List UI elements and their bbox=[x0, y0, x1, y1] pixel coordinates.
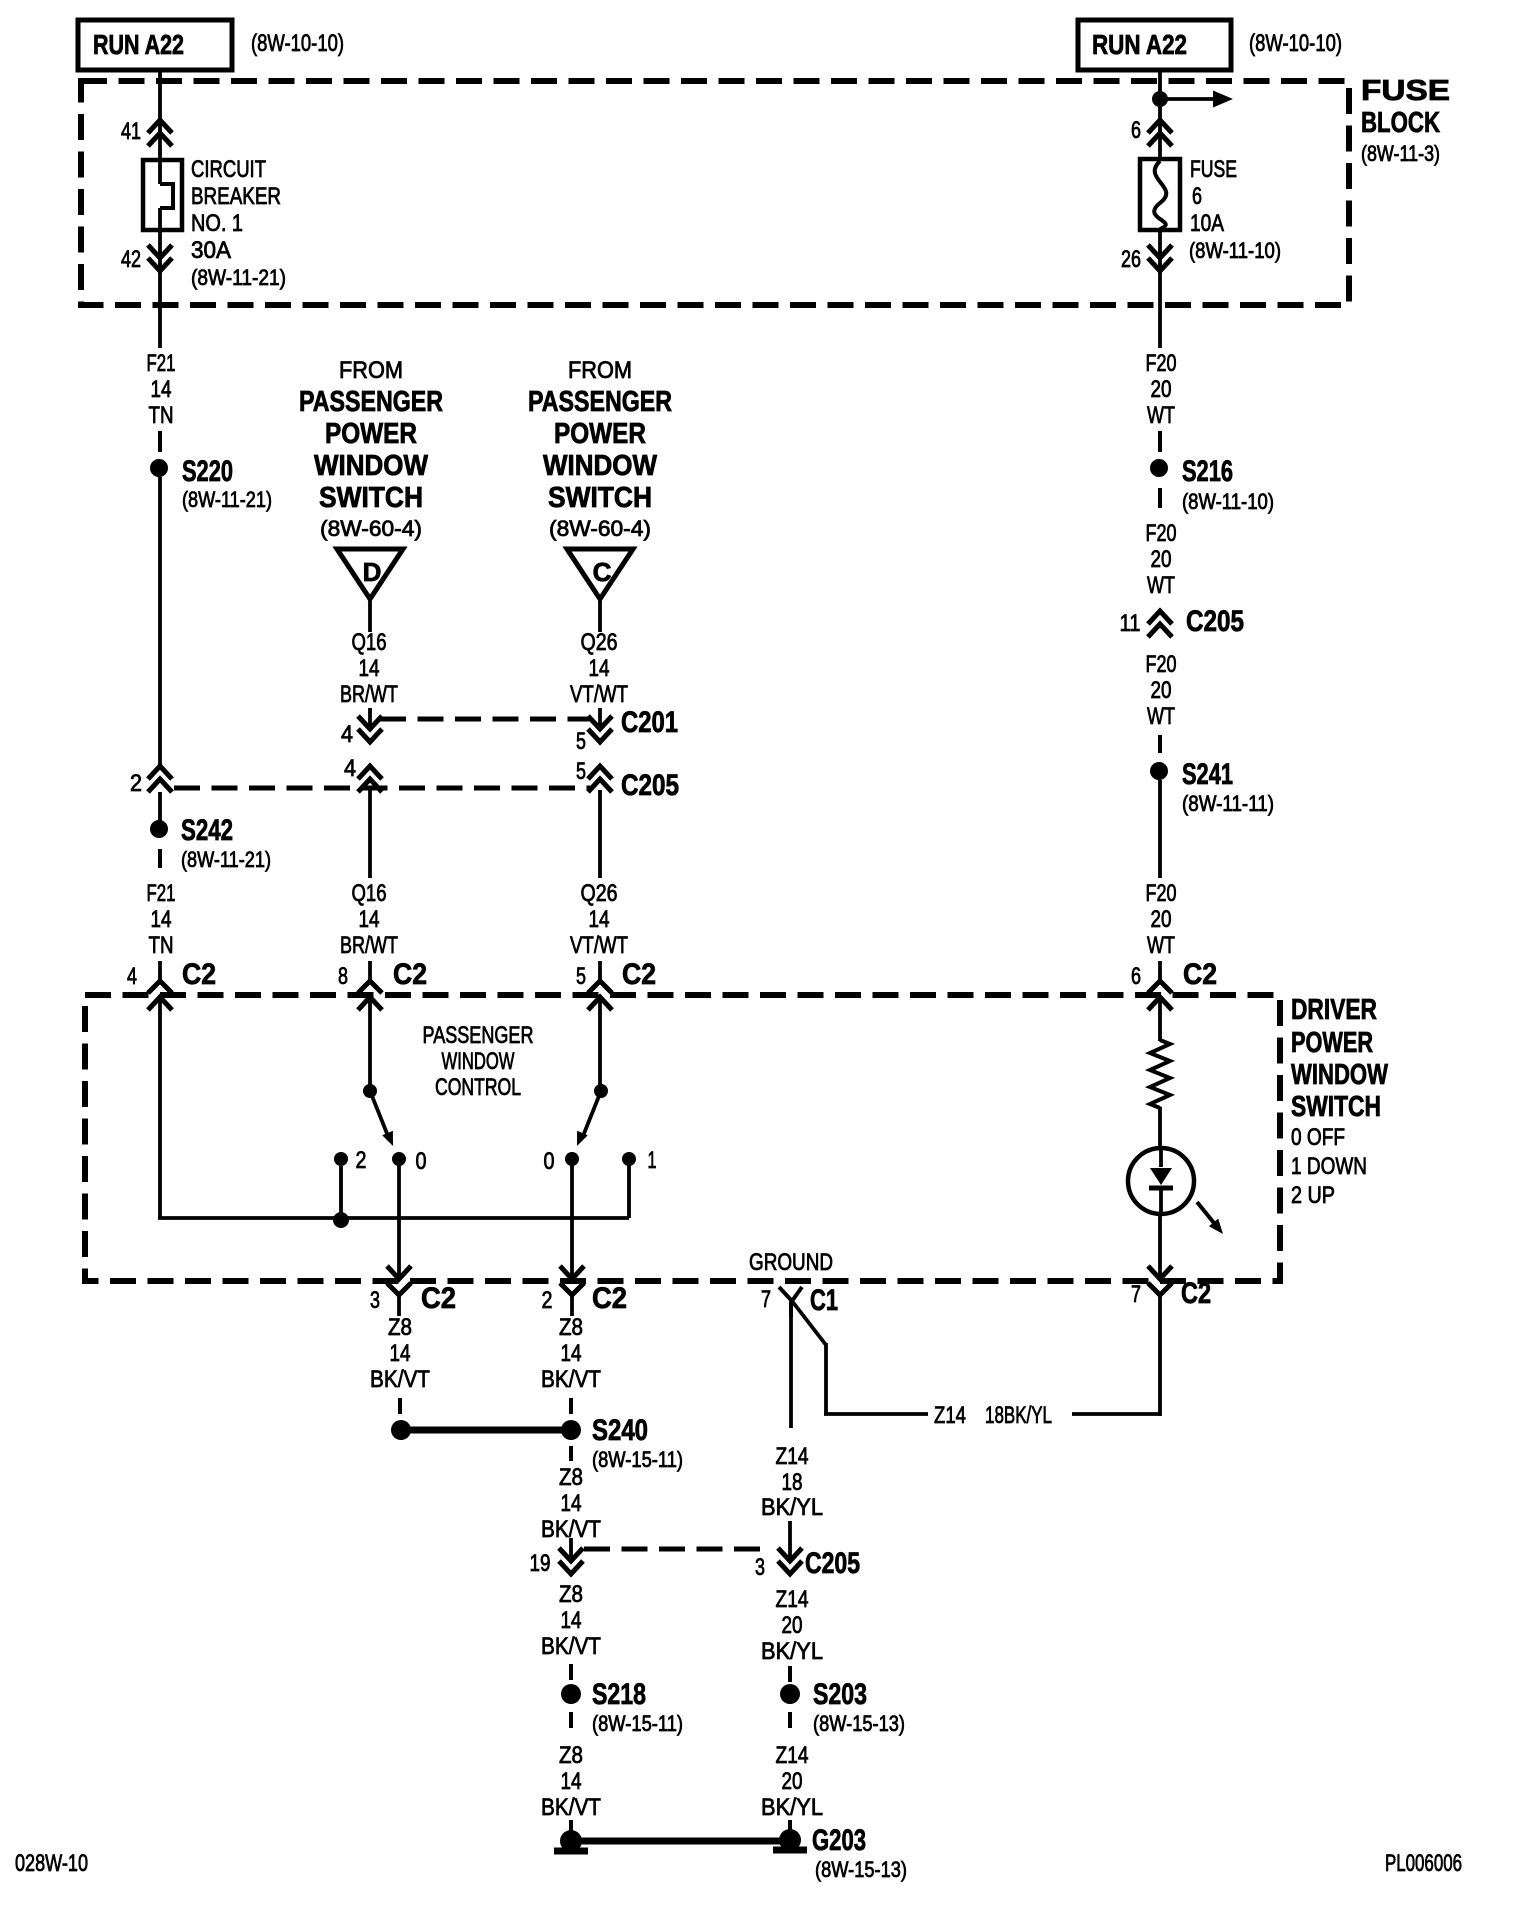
svg-text:WT: WT bbox=[1147, 932, 1175, 959]
wire dash above S240 left leg bbox=[398, 1398, 402, 1414]
svg-text:2: 2 bbox=[130, 770, 142, 797]
svg-text:C2: C2 bbox=[1181, 1277, 1211, 1310]
svg-text:S203: S203 bbox=[813, 1678, 867, 1711]
svg-text:C1: C1 bbox=[810, 1284, 838, 1317]
pin 5 C205 connector bbox=[576, 758, 612, 792]
arrow into box pin 5 bbox=[588, 997, 612, 1010]
label (8W-10-10) left bbox=[251, 30, 344, 57]
svg-text:TN: TN bbox=[149, 932, 174, 959]
svg-text:Z8: Z8 bbox=[559, 1581, 583, 1608]
label F20 20 WT (4) bbox=[1146, 880, 1177, 959]
arrow out of box pin 3 bbox=[387, 1266, 411, 1279]
svg-text:SWITCH: SWITCH bbox=[1291, 1091, 1381, 1123]
svg-text:SWITCH: SWITCH bbox=[319, 482, 423, 514]
svg-text:VT/WT: VT/WT bbox=[570, 932, 628, 959]
wire into pin 3 C205 bbox=[788, 1521, 792, 1560]
label F20 20 WT (3) bbox=[1146, 651, 1177, 730]
wire C1 branch to driver switch bbox=[792, 1301, 928, 1414]
svg-text:(8W-11-21): (8W-11-21) bbox=[181, 847, 271, 872]
svg-text:WT: WT bbox=[1147, 402, 1175, 429]
svg-text:WINDOW: WINDOW bbox=[314, 450, 429, 482]
wire S241 to F20 label bbox=[1158, 780, 1162, 878]
svg-text:14: 14 bbox=[561, 1490, 582, 1517]
svg-text:(8W-15-13): (8W-15-13) bbox=[815, 1857, 907, 1882]
pin 42 connector bbox=[121, 245, 172, 273]
wire S240 tie bar bbox=[406, 1427, 566, 1434]
label F20 20 WT (2) bbox=[1146, 520, 1177, 599]
svg-text:7: 7 bbox=[761, 1286, 771, 1313]
svg-text:20: 20 bbox=[782, 1768, 803, 1795]
svg-text:F20: F20 bbox=[1146, 520, 1177, 547]
svg-text:POWER: POWER bbox=[1291, 1027, 1373, 1059]
label Z14 20 BK/YL (to ground) bbox=[761, 1742, 823, 1821]
svg-text:CIRCUIT: CIRCUIT bbox=[191, 156, 266, 183]
svg-text:RUN A22: RUN A22 bbox=[93, 29, 184, 60]
driver/passenger switch dashed box bbox=[85, 995, 1280, 1281]
arrow into box pin 4 bbox=[148, 997, 172, 1010]
svg-text:5: 5 bbox=[576, 963, 586, 990]
connector C205 label bbox=[621, 769, 679, 802]
pin 6 connector (fuse top) bbox=[1131, 117, 1172, 146]
arrow out of box pin 2 bbox=[560, 1266, 584, 1279]
svg-text:20: 20 bbox=[1151, 677, 1172, 704]
arrow into box pin 8 bbox=[358, 997, 382, 1010]
svg-text:20: 20 bbox=[1151, 376, 1172, 403]
svg-text:5: 5 bbox=[576, 728, 586, 755]
svg-text:(8W-15-13): (8W-15-13) bbox=[813, 1711, 905, 1736]
svg-text:41: 41 bbox=[121, 118, 141, 145]
svg-text:BK/VT: BK/VT bbox=[541, 1366, 601, 1393]
svg-text:C2: C2 bbox=[421, 1282, 456, 1315]
svg-text:7: 7 bbox=[1131, 1281, 1141, 1308]
junction dot A22 feed bbox=[1152, 91, 1168, 107]
pin 41 connector bbox=[121, 118, 172, 146]
wire C to Q26 label bbox=[598, 599, 602, 632]
svg-text:BK/YL: BK/YL bbox=[761, 1794, 823, 1821]
svg-text:G203: G203 bbox=[812, 1824, 866, 1857]
triangle connector C bbox=[567, 549, 633, 599]
label 0 OFF 1 DOWN 2 UP bbox=[1291, 1124, 1367, 1209]
svg-text:Z14: Z14 bbox=[776, 1742, 809, 1769]
svg-text:(8W-60-4): (8W-60-4) bbox=[320, 516, 422, 541]
label Q16 14 BR/WT (upper) bbox=[340, 629, 398, 708]
svg-text:WINDOW: WINDOW bbox=[442, 1048, 515, 1075]
label Z14 20 BK/YL (below C205) bbox=[761, 1586, 823, 1665]
junction dot on bus bbox=[333, 1212, 349, 1228]
connector line C201 (dashed) bbox=[380, 717, 590, 722]
connector line C205 bottom (dashed) bbox=[584, 1547, 766, 1552]
label F20 20 WT (1) bbox=[1146, 350, 1177, 429]
pin 3 C2 connector bbox=[370, 1282, 456, 1316]
svg-text:30A: 30A bbox=[191, 237, 231, 264]
label Z8 14 BK/VT (below 19) bbox=[541, 1581, 601, 1660]
svg-text:DRIVER: DRIVER bbox=[1291, 994, 1377, 1026]
switch arm passenger right bbox=[577, 1084, 608, 1146]
svg-text:C2: C2 bbox=[592, 1282, 627, 1315]
splice S240 bbox=[561, 1414, 683, 1472]
svg-text:C205: C205 bbox=[621, 769, 679, 802]
wire stub into C201 pin 5 bbox=[598, 708, 602, 727]
wire pin 4 down and across bbox=[158, 997, 629, 1218]
svg-text:S241: S241 bbox=[1182, 758, 1233, 791]
svg-text:14: 14 bbox=[561, 1607, 582, 1634]
svg-text:D: D bbox=[363, 557, 382, 587]
svg-text:4: 4 bbox=[341, 721, 353, 748]
svg-text:Q16: Q16 bbox=[352, 629, 387, 656]
svg-text:19: 19 bbox=[530, 1550, 551, 1577]
splice S218 bbox=[561, 1678, 683, 1736]
svg-text:POWER: POWER bbox=[325, 418, 417, 450]
wire C1 to Z14 label bbox=[789, 1315, 793, 1428]
svg-text:(8W-10-10): (8W-10-10) bbox=[251, 30, 344, 57]
pin 19 C205 connector bbox=[530, 1538, 584, 1577]
wire D to Q16 label bbox=[368, 599, 372, 632]
svg-text:C: C bbox=[593, 557, 612, 587]
svg-text:42: 42 bbox=[121, 246, 141, 273]
svg-text:3: 3 bbox=[370, 1287, 380, 1314]
svg-text:Z8: Z8 bbox=[559, 1742, 583, 1769]
splice S203 bbox=[780, 1678, 905, 1736]
LED indicator bbox=[1128, 1148, 1194, 1214]
switch arm passenger left bbox=[363, 1084, 393, 1146]
svg-text:26: 26 bbox=[1121, 246, 1141, 273]
wire RUN A22 left to circuit breaker bbox=[158, 70, 162, 184]
svg-text:(8W-10-10): (8W-10-10) bbox=[1249, 30, 1342, 57]
pin 8 C2 connector bbox=[338, 958, 427, 993]
node RUN A22 (right feed box) bbox=[1078, 20, 1231, 70]
svg-text:0: 0 bbox=[416, 1148, 427, 1175]
wire Z14 to driver switch pin 7 bbox=[1072, 1297, 1160, 1416]
svg-text:FUSE: FUSE bbox=[1190, 156, 1237, 183]
wire dash below S240 bbox=[569, 1446, 573, 1461]
svg-text:(8W-11-11): (8W-11-11) bbox=[1182, 791, 1274, 816]
svg-text:BR/WT: BR/WT bbox=[340, 681, 398, 708]
wire dash below S216 bbox=[1158, 488, 1162, 508]
wire C205 pin 4 to Q16 label bbox=[368, 790, 372, 878]
label PASSENGER WINDOW CONTROL bbox=[423, 1022, 534, 1101]
svg-text:PASSENGER: PASSENGER bbox=[423, 1022, 534, 1049]
label Q26 14 VT/WT (lower) bbox=[570, 880, 628, 959]
svg-text:TN: TN bbox=[149, 402, 174, 429]
resistor (illumination) bbox=[1150, 1040, 1170, 1108]
splice S220 bbox=[150, 455, 272, 512]
pin 26 connector bbox=[1121, 245, 1172, 273]
svg-text:PL006006: PL006006 bbox=[1385, 1850, 1462, 1877]
svg-text:GROUND: GROUND bbox=[749, 1249, 833, 1276]
label Q16 14 BR/WT (lower) bbox=[340, 880, 398, 959]
svg-text:20: 20 bbox=[782, 1612, 803, 1639]
fuse F6 bbox=[1140, 159, 1180, 230]
svg-text:PASSENGER: PASSENGER bbox=[528, 386, 672, 418]
svg-text:14: 14 bbox=[561, 1768, 582, 1795]
svg-text:Z8: Z8 bbox=[559, 1314, 583, 1341]
connector C201 label bbox=[621, 706, 678, 739]
triangle connector D bbox=[337, 549, 403, 599]
wire dash above S218 bbox=[569, 1664, 573, 1680]
pin 2 connector (C205) bbox=[130, 766, 172, 797]
svg-text:S218: S218 bbox=[592, 1678, 646, 1711]
svg-text:20: 20 bbox=[1151, 546, 1172, 573]
label F21 14 TN (upper) bbox=[147, 350, 176, 429]
svg-text:18BK/YL: 18BK/YL bbox=[985, 1402, 1052, 1429]
wire stub into C201 pin 4 bbox=[368, 708, 372, 727]
svg-text:WINDOW: WINDOW bbox=[1291, 1059, 1388, 1091]
svg-text:C205: C205 bbox=[1186, 605, 1244, 638]
svg-text:FROM: FROM bbox=[339, 357, 403, 384]
pin 2 C2 connector bbox=[542, 1282, 628, 1316]
svg-text:F21: F21 bbox=[147, 880, 176, 907]
svg-text:Z14: Z14 bbox=[776, 1443, 809, 1470]
svg-text:2: 2 bbox=[542, 1287, 553, 1314]
splice S216 bbox=[1150, 455, 1274, 514]
svg-text:Z14: Z14 bbox=[934, 1402, 966, 1429]
label Z14 18BK/YL (horizontal run) bbox=[934, 1402, 1052, 1429]
svg-text:C2: C2 bbox=[393, 958, 427, 991]
svg-text:C2: C2 bbox=[182, 958, 216, 991]
svg-text:S220: S220 bbox=[182, 455, 233, 488]
svg-text:FUSE: FUSE bbox=[1361, 75, 1450, 107]
svg-text:S216: S216 bbox=[1182, 455, 1233, 488]
svg-text:(8W-11-10): (8W-11-10) bbox=[1182, 489, 1274, 514]
svg-text:SWITCH: SWITCH bbox=[548, 482, 652, 514]
label DRIVER POWER WINDOW SWITCH bbox=[1291, 994, 1388, 1123]
svg-text:14: 14 bbox=[561, 1340, 582, 1367]
svg-text:BK/YL: BK/YL bbox=[761, 1494, 823, 1521]
node RUN A22 (left feed box) bbox=[78, 20, 232, 70]
wire dash pin2 to S240 bbox=[569, 1398, 573, 1414]
wire pin 6 to resistor bbox=[1158, 997, 1162, 1041]
svg-text:(8W-11-21): (8W-11-21) bbox=[191, 265, 286, 290]
wire dash below S218 bbox=[569, 1712, 573, 1728]
svg-text:C2: C2 bbox=[1183, 958, 1217, 991]
svg-text:PASSENGER: PASSENGER bbox=[299, 386, 443, 418]
circuit breaker CB1 bbox=[143, 160, 182, 230]
svg-text:(8W-15-11): (8W-15-11) bbox=[592, 1711, 683, 1736]
svg-text:10A: 10A bbox=[1190, 210, 1224, 237]
svg-text:FROM: FROM bbox=[568, 357, 632, 384]
arrow out of box pin 7 bbox=[1148, 1266, 1172, 1279]
svg-text:14: 14 bbox=[359, 655, 380, 682]
pin 11 C205 connector bbox=[1120, 605, 1245, 638]
svg-text:F20: F20 bbox=[1146, 350, 1177, 377]
wire branch arrow right bbox=[1160, 91, 1233, 108]
ground G203 bbox=[773, 1824, 907, 1882]
LED arrow bbox=[1197, 1202, 1223, 1234]
svg-text:WT: WT bbox=[1147, 703, 1175, 730]
pin 6 C2 connector bbox=[1131, 958, 1217, 993]
svg-text:Q16: Q16 bbox=[352, 880, 387, 907]
contact 0 dot (left switch) bbox=[392, 1148, 427, 1175]
svg-text:1 DOWN: 1 DOWN bbox=[1291, 1153, 1367, 1180]
wire dash above S220 bbox=[158, 431, 162, 452]
label FUSE BLOCK bbox=[1361, 75, 1450, 166]
wire C205 pin 5 to Q26 label bbox=[598, 790, 602, 878]
contact 2 dot bbox=[334, 1147, 367, 1174]
svg-text:BREAKER: BREAKER bbox=[191, 183, 281, 210]
wire contact 0 to pin 2 bbox=[570, 1159, 574, 1279]
svg-text:3: 3 bbox=[755, 1554, 765, 1581]
wire dash above right ground bbox=[788, 1820, 792, 1831]
contact 1 dot bbox=[622, 1147, 657, 1174]
label F21 14 TN (lower) bbox=[147, 880, 176, 959]
wire breaker to F21 label bbox=[158, 208, 162, 348]
svg-text:8: 8 bbox=[338, 963, 348, 990]
label FROM PASSENGER POWER WINDOW SWITCH (C) bbox=[528, 357, 672, 541]
svg-text:14: 14 bbox=[359, 906, 380, 933]
svg-text:CONTROL: CONTROL bbox=[435, 1074, 521, 1101]
svg-text:S242: S242 bbox=[181, 814, 233, 847]
svg-text:(8W-60-4): (8W-60-4) bbox=[549, 516, 651, 541]
pin 4 C201 connector bbox=[341, 716, 382, 748]
svg-text:4: 4 bbox=[344, 755, 356, 782]
svg-text:Z8: Z8 bbox=[388, 1314, 412, 1341]
pin 4 C205 connector bbox=[344, 755, 382, 792]
svg-text:(8W-11-3): (8W-11-3) bbox=[1361, 141, 1440, 166]
svg-text:BK/VT: BK/VT bbox=[370, 1366, 430, 1393]
svg-text:Z8: Z8 bbox=[559, 1464, 583, 1491]
wire pin 5 to switch pivot bbox=[598, 997, 602, 1086]
label GROUND bbox=[749, 1249, 833, 1276]
connector line C205 (dashed) bbox=[174, 786, 590, 791]
arrow into box pin 6 bbox=[1148, 997, 1172, 1010]
wire S220 to connector 2 bbox=[158, 477, 162, 770]
label CIRCUIT BREAKER NO. 1 30A bbox=[191, 156, 286, 290]
label FROM PASSENGER POWER WINDOW SWITCH (D) bbox=[299, 357, 443, 541]
svg-text:WINDOW: WINDOW bbox=[543, 450, 658, 482]
svg-text:(8W-15-11): (8W-15-11) bbox=[592, 1447, 683, 1472]
svg-text:2: 2 bbox=[356, 1147, 367, 1174]
junction dot left of S240 bbox=[391, 1420, 411, 1440]
pin 5 C2 connector bbox=[576, 958, 656, 993]
svg-text:14: 14 bbox=[589, 655, 610, 682]
wire resistor to LED bbox=[1158, 1107, 1162, 1150]
wire dash below S242 bbox=[158, 849, 162, 868]
pin 3 C205 connector bbox=[755, 1547, 860, 1581]
pin 5 C201 connector bbox=[576, 716, 612, 755]
svg-text:BLOCK: BLOCK bbox=[1361, 107, 1440, 139]
svg-text:2 UP: 2 UP bbox=[1291, 1182, 1335, 1209]
svg-text:C2: C2 bbox=[622, 958, 656, 991]
wire contact 0 to pin 3 bbox=[397, 1159, 401, 1279]
wire LED to pin 7 bbox=[1158, 1214, 1162, 1279]
svg-text:F21: F21 bbox=[147, 350, 176, 377]
svg-text:WT: WT bbox=[1147, 572, 1175, 599]
label (8W-10-10) right bbox=[1249, 30, 1342, 57]
svg-text:14: 14 bbox=[390, 1340, 411, 1367]
wire bus to contact 1 bbox=[627, 1159, 631, 1218]
label 028W-10 bbox=[15, 1850, 88, 1877]
pin 4 C2 connector bbox=[127, 958, 216, 993]
svg-text:11: 11 bbox=[1120, 610, 1141, 637]
svg-text:5: 5 bbox=[576, 758, 586, 785]
label Z8 14 BK/VT (below S240) bbox=[541, 1464, 601, 1543]
label Z8 14 BK/VT (pin 2 drop) bbox=[541, 1314, 601, 1393]
svg-text:C205: C205 bbox=[805, 1547, 860, 1580]
svg-text:0 OFF: 0 OFF bbox=[1291, 1124, 1345, 1151]
wire pin 8 to switch pivot bbox=[368, 997, 372, 1086]
svg-text:6: 6 bbox=[1131, 117, 1141, 144]
svg-text:NO. 1: NO. 1 bbox=[191, 210, 243, 237]
label Z8 14 BK/VT (pin 3 drop) bbox=[370, 1314, 430, 1393]
svg-text:BK/YL: BK/YL bbox=[761, 1638, 823, 1665]
wire bus to contact 2 bbox=[339, 1166, 343, 1218]
svg-text:18: 18 bbox=[782, 1469, 803, 1496]
wire dash above S216 bbox=[1158, 431, 1162, 452]
wire dash above S203 bbox=[788, 1666, 792, 1682]
wire dash above S241 bbox=[1158, 735, 1162, 753]
splice S241 bbox=[1150, 758, 1274, 816]
svg-text:POWER: POWER bbox=[554, 418, 646, 450]
svg-text:1: 1 bbox=[648, 1147, 657, 1174]
svg-text:14: 14 bbox=[151, 376, 172, 403]
pin 7 C2 connector bbox=[1131, 1277, 1211, 1310]
svg-text:F20: F20 bbox=[1146, 880, 1177, 907]
svg-text:20: 20 bbox=[1151, 906, 1172, 933]
fuse block dashed box bbox=[81, 81, 1349, 305]
ground (left) bbox=[554, 1830, 588, 1852]
svg-text:Z14: Z14 bbox=[776, 1586, 809, 1613]
label PL006006 bbox=[1385, 1850, 1462, 1877]
wire dash above left ground bbox=[569, 1820, 573, 1831]
svg-text:VT/WT: VT/WT bbox=[570, 681, 628, 708]
svg-text:(8W-11-10): (8W-11-10) bbox=[1189, 238, 1281, 263]
svg-text:BR/WT: BR/WT bbox=[340, 932, 398, 959]
svg-text:C201: C201 bbox=[621, 706, 678, 739]
wire connector 2 to S242 bbox=[158, 792, 162, 822]
svg-text:BK/VT: BK/VT bbox=[541, 1794, 601, 1821]
svg-text:RUN A22: RUN A22 bbox=[1092, 29, 1187, 60]
contact 0 dot (right switch) bbox=[544, 1148, 580, 1175]
label Q26 14 VT/WT (upper) bbox=[570, 629, 628, 708]
label FUSE 6 10A bbox=[1189, 156, 1281, 263]
svg-text:028W-10: 028W-10 bbox=[15, 1850, 88, 1877]
svg-text:Q26: Q26 bbox=[581, 880, 618, 907]
svg-text:F20: F20 bbox=[1146, 651, 1177, 678]
svg-text:6: 6 bbox=[1131, 963, 1141, 990]
splice S242 bbox=[150, 814, 271, 872]
wire RUN A22 right to fuse bbox=[1158, 70, 1162, 159]
svg-text:14: 14 bbox=[151, 906, 172, 933]
label Z14 18 BK/YL (below C1) bbox=[761, 1443, 823, 1521]
svg-text:6: 6 bbox=[1192, 183, 1202, 210]
svg-text:(8W-11-21): (8W-11-21) bbox=[182, 487, 272, 512]
svg-text:S240: S240 bbox=[592, 1414, 648, 1447]
label Z8 14 BK/VT (to ground) bbox=[541, 1742, 601, 1821]
wire fuse to F20 label bbox=[1158, 230, 1162, 348]
svg-text:0: 0 bbox=[544, 1148, 555, 1175]
pin 7 C1 connector bbox=[761, 1284, 838, 1317]
wire dash below S203 bbox=[788, 1712, 792, 1728]
svg-text:4: 4 bbox=[127, 963, 137, 990]
svg-text:BK/VT: BK/VT bbox=[541, 1633, 601, 1660]
wire ground tie bar bbox=[580, 1838, 780, 1845]
svg-text:Q26: Q26 bbox=[581, 629, 618, 656]
svg-text:14: 14 bbox=[589, 906, 610, 933]
